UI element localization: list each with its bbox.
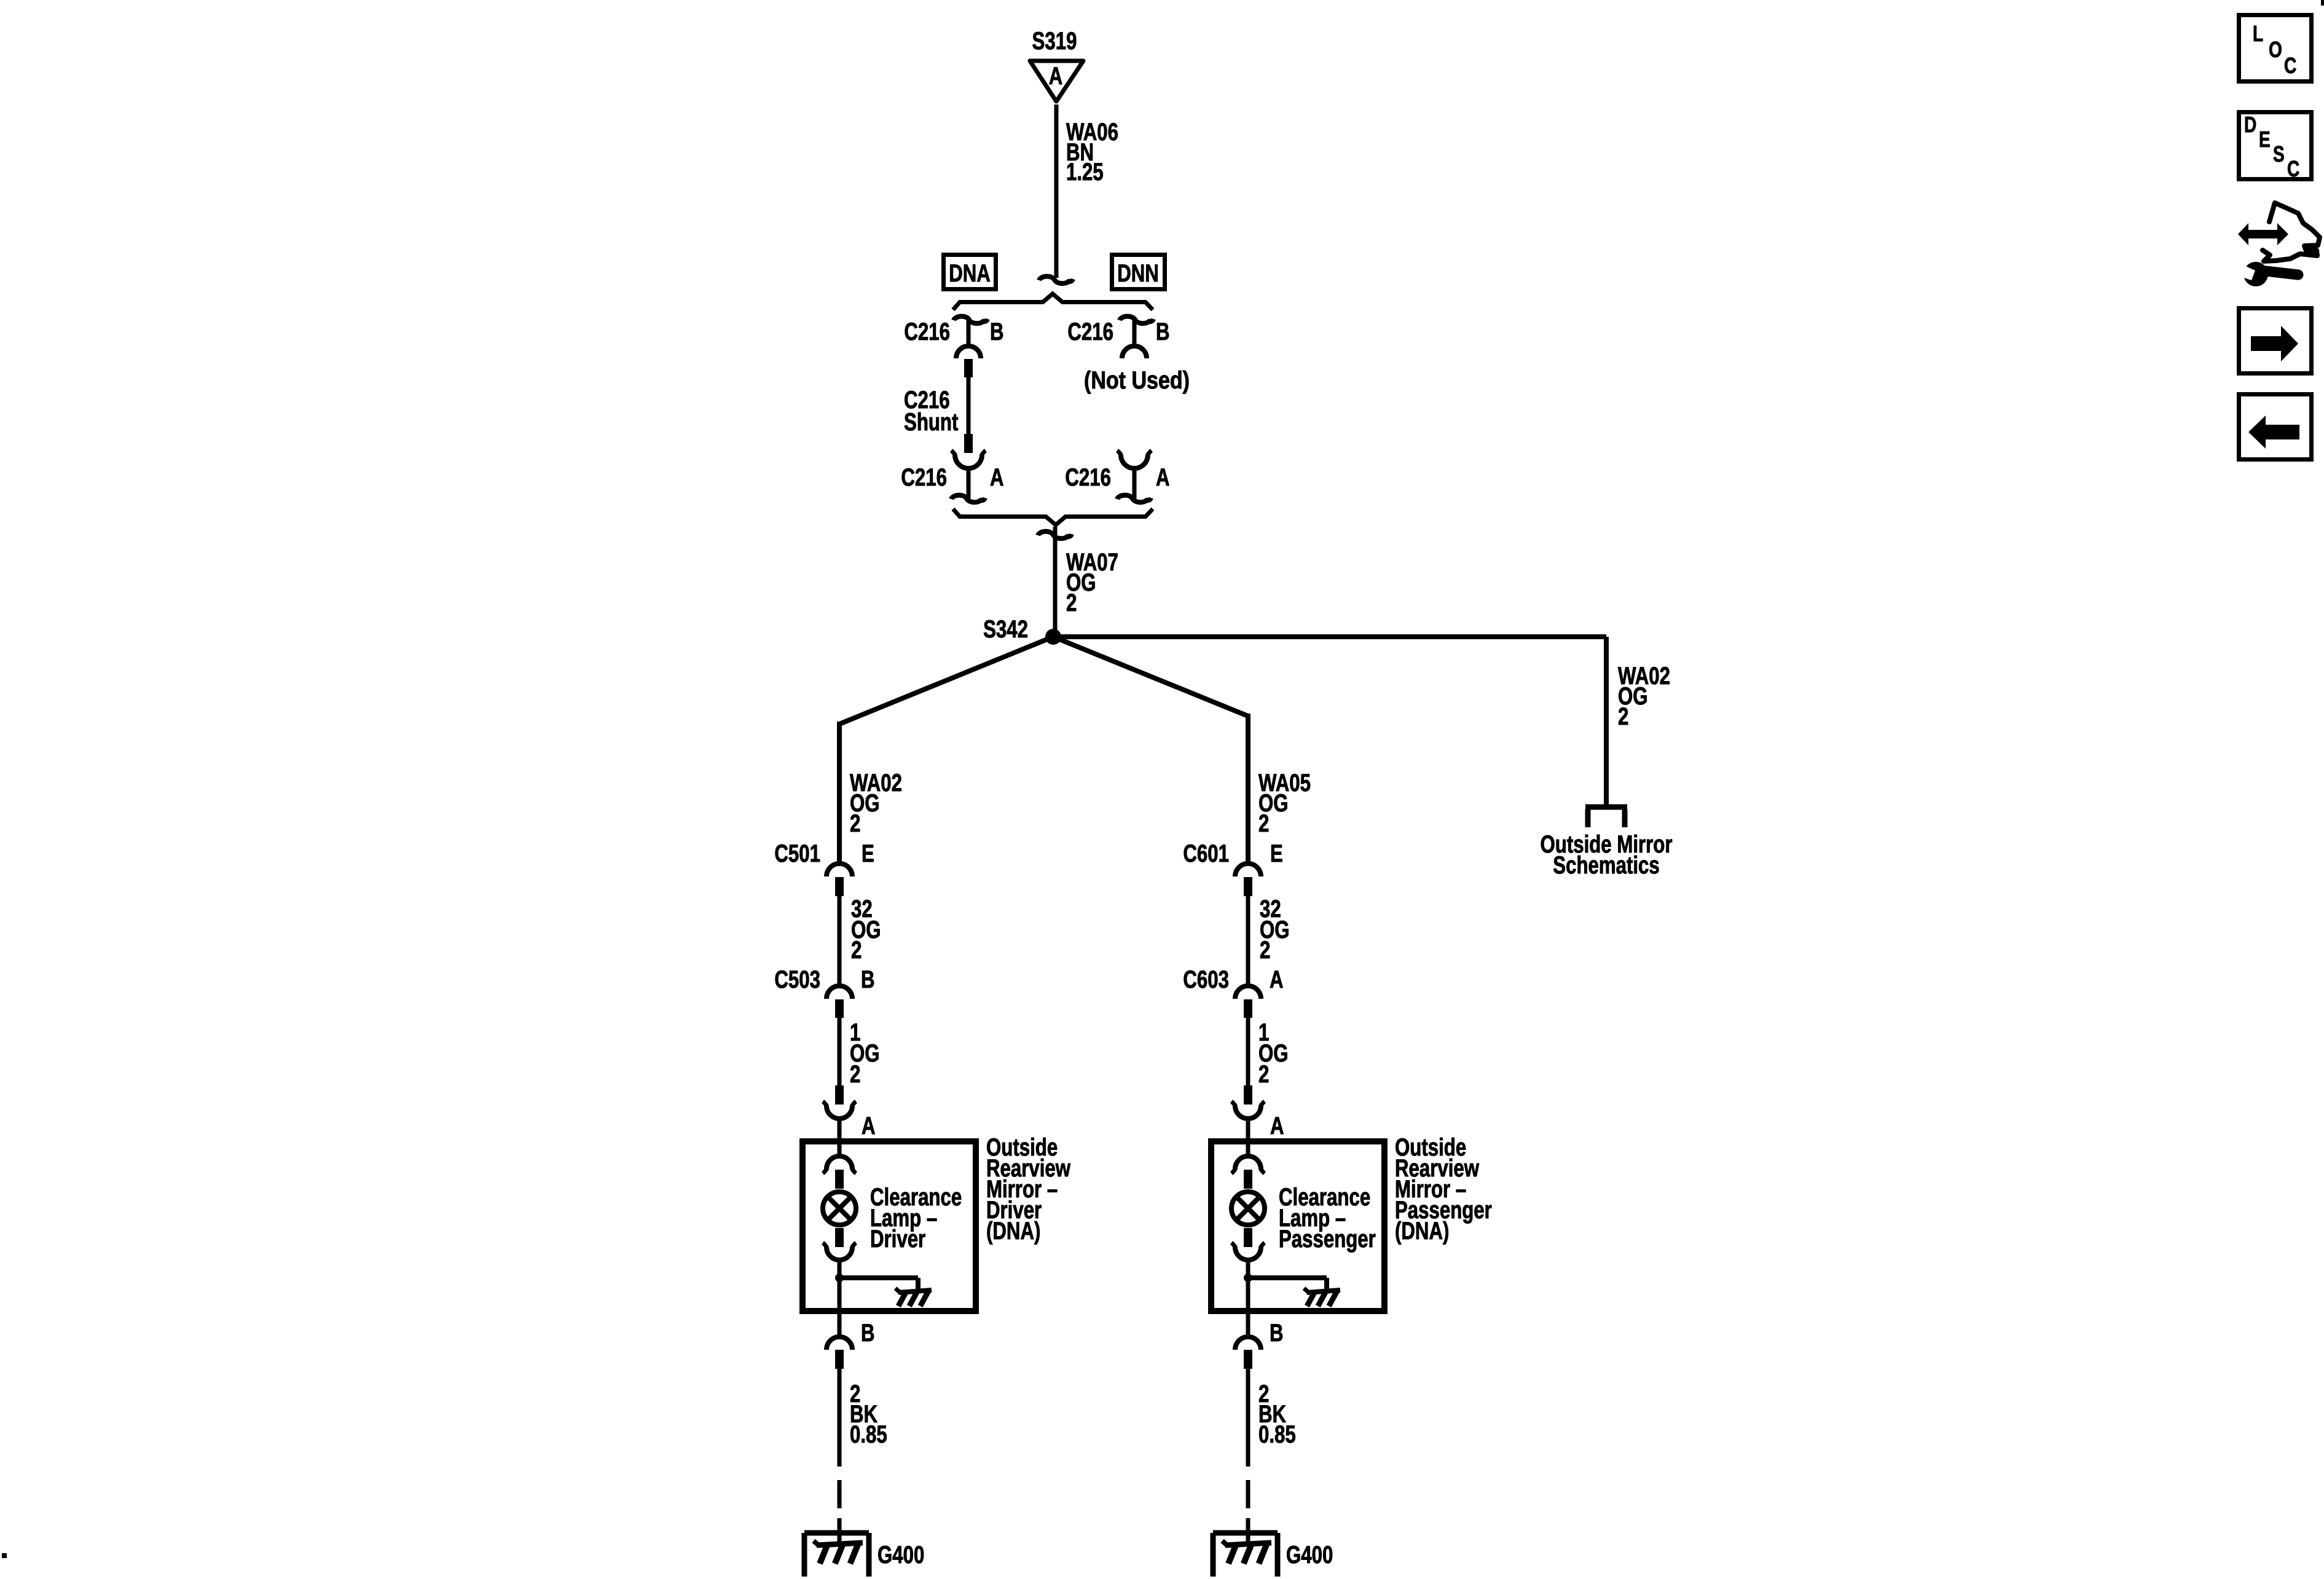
connector C216 pin B right (DNN) [1120,317,1153,358]
svg-text:C: C [2284,53,2296,78]
off-page connector to Outside Mirror Schematics [1585,807,1627,827]
svg-text:2: 2 [1066,589,1077,616]
nav icon wiring-repair (arrow, outline, wrench) [2237,203,2320,286]
svg-text:L: L [2253,21,2263,46]
connector pin B below Passenger lamp [1235,1337,1261,1369]
page edge mark bottom-left [2,1553,7,1558]
svg-text:S: S [2273,141,2285,167]
pin label E (C501) [862,840,874,867]
svg-text:A: A [1270,1112,1284,1140]
ground G400 (Driver) [804,1533,869,1577]
splice symbol S319 label [1032,28,1077,55]
svg-text:G400: G400 [877,1542,924,1569]
note (Not Used) [1084,367,1190,394]
svg-text:E: E [862,840,874,867]
wire from S342 to driver branch [839,637,1053,862]
wire label 2 BK 0.85 (Passenger) [1258,1380,1296,1448]
wire label 32 OG 2 (Passenger branch) [1260,896,1290,964]
svg-text:C603: C603 [1183,966,1229,993]
svg-text:2: 2 [1258,1061,1269,1088]
wire label WA05 OG 2 (Passenger branch) [1258,770,1311,837]
wire label 2 BK 0.85 (Driver) [850,1380,887,1448]
wire label 1 OG 2 (Passenger branch) [1258,1019,1289,1088]
lamp socket terminal top (Driver) [823,1156,856,1189]
svg-text:(Not Used): (Not Used) [1084,367,1190,394]
svg-text:E: E [2259,127,2271,152]
label C216 Shunt [904,387,958,436]
lower harness brace [953,509,1153,525]
label Clearance Lamp Driver [870,1184,962,1253]
svg-text:1.25: 1.25 [1066,159,1104,186]
label C501 [774,840,820,867]
lamp socket terminal bottom (Driver) [823,1228,856,1260]
connector C216 pin A right [1117,451,1152,502]
svg-text:2: 2 [850,1061,860,1088]
pin label B (right) [1156,318,1170,345]
pin label A (Driver lamp) [862,1112,876,1140]
clearance lamp bulb Passenger [1231,1192,1265,1225]
svg-text:Schematics: Schematics [1553,852,1659,879]
power feed triangle S319 [1030,61,1083,101]
nav icon box back arrow [2239,395,2312,460]
harness break squiggle on WA07 [1038,532,1072,539]
wire 2 BK 0.85 (Passenger) [1246,1369,1250,1544]
svg-text:G400: G400 [1286,1542,1333,1569]
svg-text:B: B [990,318,1004,345]
connector pin A at Driver lamp [823,1085,856,1138]
svg-text:E: E [1270,840,1283,867]
component box Outside Rearview Mirror Passenger [1211,1141,1384,1311]
svg-text:C501: C501 [774,840,820,867]
in-box wire to lamp (Passenger) [1246,1138,1250,1156]
svg-text:B: B [861,966,875,993]
svg-text:A: A [990,464,1004,491]
svg-text:A: A [862,1112,876,1140]
wire 2 BK 0.85 (Driver) [838,1369,842,1544]
harness designator box DNA [944,255,996,289]
svg-text:0.85: 0.85 [1258,1421,1296,1448]
lamp socket terminal bottom (Passenger) [1231,1228,1265,1260]
shunt jumper wire C216 [964,359,973,453]
svg-text:D: D [2244,112,2256,137]
svg-text:0.85: 0.85 [850,1421,887,1448]
label S342 [983,616,1028,643]
label Outside Mirror Schematics [1541,831,1673,879]
label C216 (left B) [904,318,950,345]
connector pin A at Passenger lamp [1231,1085,1265,1138]
svg-text:C601: C601 [1183,840,1229,867]
svg-text:Shunt: Shunt [904,409,958,436]
svg-text:C216: C216 [1065,464,1111,491]
wire label 1 OG 2 (Driver branch) [850,1019,880,1088]
harness designator box DNN [1112,255,1165,289]
svg-text:DNN: DNN [1117,260,1159,287]
label G400 (Driver) [877,1542,924,1569]
pin label B (left) [990,318,1004,345]
harness break squiggle on WA06 [1039,277,1073,284]
svg-text:B: B [1156,318,1170,345]
svg-text:2: 2 [1618,703,1628,730]
svg-text:C503: C503 [774,966,820,993]
svg-text:C: C [2287,156,2299,181]
pin label A (right) [1156,464,1170,491]
in-box ground wire (Driver) [835,1261,918,1335]
splice dot S342 [1045,629,1061,645]
pin label A (C603) [1270,966,1284,993]
svg-text:O: O [2269,37,2282,62]
svg-text:(DNA): (DNA) [1395,1218,1449,1245]
wire label 32 OG 2 (Driver branch) [851,896,881,964]
svg-text:C216: C216 [901,464,947,491]
svg-text:C216: C216 [1067,318,1113,345]
wire from S342 to passenger branch [1053,637,1248,862]
lamp socket terminal top (Passenger) [1231,1156,1265,1189]
svg-text:B: B [1270,1320,1284,1347]
wire label WA07 OG 2 [1066,549,1118,616]
nav icon box forward arrow [2239,309,2312,374]
pin label B (Passenger lamp) [1270,1320,1284,1347]
svg-text:2: 2 [851,937,862,964]
in-box ground wire (Passenger) [1244,1261,1327,1335]
pin label A (left) [990,464,1004,491]
pin label B (Driver lamp) [861,1320,875,1347]
in-box wire to lamp (Driver) [838,1138,842,1156]
connector C216 pin B left (DNA) [954,317,987,358]
connector C601 pin E [1235,864,1261,984]
label G400 (Passenger) [1286,1542,1333,1569]
svg-text:DNA: DNA [949,260,991,287]
nav icon box LOC [2239,15,2312,82]
clearance lamp bulb Driver [823,1192,856,1225]
label C601 [1183,840,1229,867]
connector C501 pin E [826,864,852,984]
connector C216 pin A left [951,451,986,502]
wire WA07 to splice S342 [1053,527,1058,637]
pin label B (C503) [861,966,875,993]
pin label E (C601) [1270,840,1283,867]
svg-text:A: A [1049,63,1063,90]
connector C503 pin B [826,986,852,1085]
label C216 (left A) [901,464,947,491]
page edge mark top-right [2321,0,2324,6]
svg-text:S319: S319 [1032,28,1077,55]
svg-text:S342: S342 [983,616,1028,643]
label Outside Rearview Mirror Passenger (DNA) [1395,1134,1492,1245]
svg-text:A: A [1270,966,1284,993]
wire WA06 from S319 [1054,104,1059,278]
svg-text:2: 2 [850,810,860,837]
label C216 (right A) [1065,464,1111,491]
label Outside Rearview Mirror Driver (DNA) [986,1134,1071,1245]
label C503 [774,966,820,993]
component box Outside Rearview Mirror Driver [803,1141,976,1311]
svg-text:B: B [861,1320,875,1347]
wire label WA02 OG 2 (Driver branch) [850,770,902,837]
svg-text:C216: C216 [904,318,950,345]
wire label WA06 BN 1.25 [1066,119,1118,186]
wire from S342 to outside mirror schematics [1053,637,1606,806]
label C603 [1183,966,1229,993]
in-box chassis ground symbol (Passenger) [1304,1288,1340,1306]
connector C603 pin A [1235,986,1261,1085]
ground G400 (Passenger) [1213,1533,1278,1577]
label Clearance Lamp Passenger [1279,1184,1376,1253]
svg-text:2: 2 [1258,810,1269,837]
in-box chassis ground symbol (Driver) [895,1288,932,1306]
wire label WA02 OG 2 (schematics feed) [1618,663,1670,730]
upper harness brace [953,294,1153,310]
triangle pin label A [1049,63,1063,90]
nav icon box DESC [2239,112,2312,181]
svg-text:2: 2 [1260,937,1270,964]
svg-text:Passenger: Passenger [1279,1226,1376,1253]
svg-text:A: A [1156,464,1170,491]
pin label A (Passenger lamp) [1270,1112,1284,1140]
svg-text:Driver: Driver [870,1226,925,1253]
connector pin B below Driver lamp [826,1337,852,1369]
label C216 (right B) [1067,318,1113,345]
svg-text:(DNA): (DNA) [986,1218,1040,1245]
